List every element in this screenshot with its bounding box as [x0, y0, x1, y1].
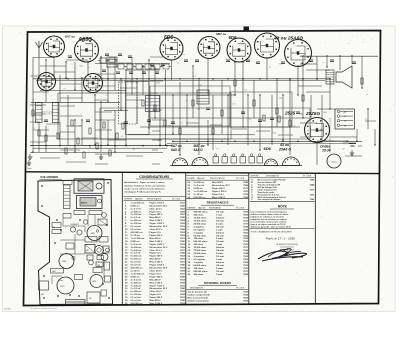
- svg-text:Specifications : Papier, ou tu: Specifications : Papier, ou tubul. a mas…: [124, 181, 165, 184]
- svg-text:7515: 7515: [243, 218, 249, 220]
- svg-text:2 mgohms: 2 mgohms: [194, 256, 206, 258]
- svg-text:500 000 ohms: 500 000 ohms: [194, 212, 209, 214]
- svg-text:7548: 7548: [243, 228, 249, 231]
- svg-text:2 x 25 mf: 2 x 25 mf: [131, 235, 140, 237]
- svg-text:Mica 1 000 V.: Mica 1 000 V.: [150, 303, 164, 305]
- svg-text:2 mgohms: 2 mgohms: [194, 226, 206, 228]
- svg-text:N° CODE: N° CODE: [303, 175, 312, 177]
- svg-text:B 1083: B 1083: [5, 309, 11, 311]
- svg-text:300 ohms: 300 ohms: [194, 244, 205, 246]
- svg-text:Papier 0,5 t.: Papier 0,5 t.: [150, 272, 162, 275]
- svg-text:7593: 7593: [243, 235, 249, 237]
- svg-text:C7: C7: [116, 115, 118, 117]
- svg-text:Papier 0,5 t.: Papier 0,5 t.: [150, 210, 162, 213]
- svg-text:Papier 0,5 t.: Papier 0,5 t.: [150, 231, 162, 234]
- svg-text:500 000 ohms: 500 000 ohms: [194, 271, 209, 273]
- svg-text:C7: C7: [281, 116, 283, 118]
- svg-text:R4: R4: [197, 109, 199, 111]
- svg-text:5 000 cm: 5 000 cm: [131, 241, 140, 243]
- svg-text:4 50 000 cm: 4 50 000 cm: [131, 231, 143, 234]
- svg-text:0,5: 0,5: [133, 149, 135, 151]
- svg-text:7509: 7509: [180, 211, 186, 213]
- svg-text:Papier 1 500 V.: Papier 1 500 V.: [150, 244, 165, 246]
- svg-text:7521: 7521: [243, 268, 249, 270]
- svg-text:Electrochim. 25 V: Electrochim. 25 V: [150, 225, 168, 228]
- svg-text:R4: R4: [330, 83, 332, 85]
- svg-text:7 a 100 cm: 7 a 100 cm: [131, 214, 142, 216]
- svg-text:50: 50: [32, 99, 34, 101]
- svg-text:25A6 G: 25A6 G: [278, 147, 291, 151]
- svg-text:7540: 7540: [180, 216, 186, 219]
- svg-text:7562: 7562: [180, 232, 186, 234]
- svg-text:6D6: 6D6: [164, 35, 173, 41]
- svg-text:150 ohms: 150 ohms: [194, 238, 205, 240]
- svg-text:1 a 10 000 cm: 1 a 10 000 cm: [131, 202, 145, 204]
- svg-text:Papier 0,5 t.: Papier 0,5 t.: [150, 252, 162, 255]
- svg-text:7593: 7593: [243, 212, 249, 214]
- svg-text:C7: C7: [106, 95, 108, 97]
- svg-text:Paris, le 17 - 1 - 1938: Paris, le 17 - 1 - 1938: [266, 237, 295, 241]
- svg-text:6M7 ou: 6M7 ou: [216, 32, 227, 36]
- svg-text:1 watt: 1 watt: [216, 273, 222, 276]
- svg-text:7540: 7540: [180, 299, 186, 302]
- svg-text:N° CODE: N° CODE: [236, 178, 245, 180]
- svg-text:7509: 7509: [243, 238, 249, 240]
- svg-text:7521: 7521: [243, 191, 249, 193]
- svg-text:43 ou: 43 ou: [279, 143, 290, 147]
- svg-text:7562: 7562: [180, 244, 186, 246]
- svg-text:7577: 7577: [243, 247, 249, 249]
- svg-text:0,1: 0,1: [246, 138, 248, 140]
- svg-text:7509: 7509: [180, 294, 186, 296]
- svg-text:2 watts: 2 watts: [216, 252, 224, 255]
- svg-text:REPERE: REPERE: [188, 207, 197, 209]
- svg-text:3 a 200 cm: 3 a 200 cm: [131, 282, 142, 284]
- svg-text:20: 20: [307, 131, 309, 133]
- svg-text:4 50 000 cm: 4 50 000 cm: [131, 302, 143, 305]
- svg-text:4 50 000 cm: 4 50 000 cm: [131, 267, 143, 270]
- svg-text:7521: 7521: [180, 214, 186, 216]
- svg-text:Chim. 25 V. t.: Chim. 25 V. t.: [150, 207, 164, 210]
- svg-text:50 000 ohms: 50 000 ohms: [194, 235, 208, 237]
- svg-text:LE SERVICE TECHNIQUE: LE SERVICE TECHNIQUE: [276, 244, 298, 246]
- svg-text:2 x 8 mf el.: 2 x 8 mf el.: [131, 208, 142, 210]
- svg-text:2 watts: 2 watts: [216, 222, 224, 225]
- svg-text:N° CODE: N° CODE: [172, 198, 181, 200]
- svg-text:Electrochim. 25 V: Electrochim. 25 V: [150, 204, 168, 207]
- svg-text:5000: 5000: [323, 112, 327, 114]
- svg-text:7577: 7577: [243, 188, 249, 190]
- svg-text:5000: 5000: [156, 82, 160, 84]
- svg-text:0,5 mgohm: 0,5 mgohm: [194, 259, 205, 261]
- svg-text:6A7 ou: 6A7 ou: [65, 35, 75, 39]
- svg-text:1 watt: 1 watt: [216, 243, 222, 246]
- svg-text:CONDENSATEURS: CONDENSATEURS: [139, 175, 170, 179]
- svg-text:6A8 G: 6A8 G: [194, 148, 204, 152]
- svg-text:7521: 7521: [243, 292, 249, 294]
- svg-text:0,1: 0,1: [365, 119, 367, 121]
- svg-text:6D6: 6D6: [229, 35, 237, 40]
- svg-text:25 000 ohms: 25 000 ohms: [194, 223, 208, 225]
- svg-text:Bloc d accord 15-36: Bloc d accord 15-36: [188, 298, 209, 300]
- svg-text:50: 50: [343, 148, 345, 150]
- svg-text:6 a 250 cm: 6 a 250 cm: [131, 256, 142, 258]
- svg-text:20: 20: [186, 100, 188, 102]
- svg-text:1/2 watt: 1/2 watt: [216, 255, 224, 258]
- svg-text:N° CODE: N° CODE: [236, 287, 245, 289]
- svg-text:confor. ou aux valeurs en cote: confor. ou aux valeurs en cote, hytensio…: [124, 187, 165, 190]
- svg-text:Mica 1 000 V.: Mica 1 000 V.: [150, 241, 164, 243]
- svg-text:9 a 150 cm: 9 a 150 cm: [131, 223, 142, 225]
- svg-text:7521: 7521: [180, 202, 186, 204]
- svg-text:C7: C7: [88, 67, 90, 69]
- svg-text:7562: 7562: [180, 279, 186, 281]
- svg-text:10 000 ohms: 10 000 ohms: [194, 218, 208, 220]
- svg-text:0,1: 0,1: [177, 63, 179, 65]
- svg-text:Papier 500 V.: Papier 500 V.: [150, 256, 164, 258]
- svg-text:20: 20: [146, 109, 148, 111]
- svg-text:1/4 watt: 1/4 watt: [216, 234, 224, 237]
- svg-text:6 a 250 cm: 6 a 250 cm: [131, 291, 142, 293]
- svg-text:7 a 100 cm: 7 a 100 cm: [131, 250, 142, 252]
- svg-text:5 000 cm: 5 000 cm: [194, 188, 203, 190]
- svg-text:500 000 ohms: 500 000 ohms: [194, 241, 209, 243]
- svg-text:Papier 500 V.: Papier 500 V.: [212, 188, 226, 190]
- svg-text:50: 50: [366, 94, 368, 96]
- svg-text:Chim. 25 V. t.: Chim. 25 V. t.: [150, 269, 164, 272]
- svg-text:0,1 mf tub.: 0,1 mf tub.: [131, 225, 142, 228]
- svg-text:Mica 500 V.: Mica 500 V.: [150, 217, 162, 219]
- svg-text:0,1: 0,1: [121, 136, 123, 138]
- svg-text:7577: 7577: [243, 223, 249, 225]
- svg-text:R4: R4: [89, 147, 91, 149]
- svg-text:Chim. 25 V. t.: Chim. 25 V. t.: [150, 249, 164, 252]
- svg-text:7509: 7509: [243, 298, 249, 300]
- svg-text:tolerance % obtenue. Si nec. p: tolerance % obtenue. Si nec. par toleran…: [124, 184, 166, 187]
- svg-text:50: 50: [181, 123, 183, 125]
- svg-text:2 x 25 mf: 2 x 25 mf: [131, 270, 140, 272]
- svg-text:1/4 watt: 1/4 watt: [216, 219, 224, 222]
- svg-text:25 000 ohms: 25 000 ohms: [194, 253, 208, 255]
- svg-text:2 watts: 2 watts: [216, 237, 224, 240]
- svg-text:SPECIFICATION: SPECIFICATION: [210, 177, 225, 180]
- svg-text:1/2 watt: 1/2 watt: [216, 270, 224, 273]
- svg-text:Papier 0,5 t.: Papier 0,5 t.: [150, 293, 162, 296]
- svg-text:CH: CH: [358, 145, 362, 148]
- svg-text:0,5 mf tub.: 0,5 mf tub.: [131, 264, 142, 267]
- svg-text:Papier 1 500 V.: Papier 1 500 V.: [150, 285, 165, 287]
- svg-text:0,5: 0,5: [343, 113, 345, 115]
- svg-text:100: 100: [168, 125, 171, 127]
- svg-text:2 x 0,1 mf: 2 x 0,1 mf: [131, 288, 141, 290]
- svg-text:0,5 mgohm: 0,5 mgohm: [194, 229, 205, 231]
- svg-text:Papier 500 V.: Papier 500 V.: [150, 235, 164, 237]
- svg-text:Tous droits de reproduction re: Tous droits de reproduction reserves: [30, 307, 57, 310]
- svg-text:0,5: 0,5: [310, 58, 312, 60]
- svg-text:50: 50: [269, 67, 271, 69]
- svg-text:R4: R4: [199, 85, 201, 87]
- svg-text:d analogues P milli et pourcen: d analogues P milli et pourcent par %.: [124, 191, 161, 194]
- svg-text:bobinee: bobinee: [216, 247, 225, 249]
- svg-text:Mica 500 V.: Mica 500 V.: [212, 182, 224, 184]
- svg-text:0,1: 0,1: [244, 90, 246, 92]
- svg-text:0,1: 0,1: [193, 76, 195, 78]
- svg-text:100: 100: [279, 64, 282, 66]
- svg-text:7577: 7577: [243, 271, 249, 273]
- svg-text:bobinee: bobinee: [216, 218, 225, 220]
- svg-text:Jeu complet de lampes: Jeu complet de lampes: [258, 198, 282, 201]
- svg-text:2 x 8 mf el.: 2 x 8 mf el.: [194, 185, 205, 187]
- svg-text:50: 50: [151, 95, 153, 97]
- svg-text:50: 50: [158, 140, 160, 142]
- svg-text:2 x 0,1 mf: 2 x 0,1 mf: [131, 253, 141, 255]
- svg-text:7540: 7540: [243, 225, 249, 228]
- svg-text:9 a 150 cm: 9 a 150 cm: [131, 259, 142, 261]
- svg-text:1 mgohm: 1 mgohm: [194, 232, 204, 234]
- svg-text:7515: 7515: [243, 194, 249, 196]
- svg-text:COMMUT.: COMMUT.: [70, 224, 80, 226]
- svg-text:REPERE: REPERE: [251, 175, 260, 177]
- svg-text:7540: 7540: [180, 204, 186, 207]
- svg-text:5 000 cm: 5 000 cm: [131, 205, 140, 207]
- svg-text:JEU: JEU: [52, 271, 56, 273]
- svg-text:2 x 8 mf el.: 2 x 8 mf el.: [131, 279, 142, 281]
- svg-text:Tolerance generale : plus ou m: Tolerance generale : plus ou moins 10 %.: [251, 226, 292, 229]
- svg-text:7509: 7509: [243, 215, 249, 217]
- svg-text:2 x 8 mf el.: 2 x 8 mf el.: [131, 244, 142, 246]
- svg-text:Mica 500 V.: Mica 500 V.: [150, 259, 162, 261]
- svg-text:etant a sa valeur nominale de: etant a sa valeur nominale de 110 V.: [251, 223, 287, 226]
- svg-text:7540: 7540: [180, 228, 186, 231]
- svg-text:7540: 7540: [180, 252, 186, 255]
- svg-text:Mica 500 V.: Mica 500 V.: [150, 279, 162, 281]
- svg-text:Papier 0,5 t.: Papier 0,5 t.: [212, 193, 224, 196]
- svg-text:C12: C12: [130, 79, 133, 81]
- svg-text:Les resistances sont communiqu: Les resistances sont communiquees: [251, 210, 288, 213]
- svg-text:Electrochim. 25 V: Electrochim. 25 V: [150, 267, 168, 270]
- svg-text:Jeu de boutons (3): Jeu de boutons (3): [188, 291, 207, 294]
- svg-text:25Z6G: 25Z6G: [305, 111, 320, 116]
- svg-text:5000: 5000: [181, 54, 185, 56]
- svg-text:1/2 watt: 1/2 watt: [216, 225, 224, 228]
- svg-text:0,1: 0,1: [217, 148, 219, 150]
- svg-text:7540: 7540: [180, 275, 186, 278]
- svg-text:2 watts: 2 watts: [216, 267, 224, 270]
- svg-text:7509: 7509: [180, 235, 186, 237]
- svg-text:1 a 10 000 cm: 1 a 10 000 cm: [131, 238, 145, 240]
- svg-text:7548: 7548: [243, 252, 249, 255]
- svg-text:Papier 1 500 V.: Papier 1 500 V.: [150, 202, 165, 204]
- svg-text:0,1: 0,1: [323, 62, 325, 64]
- svg-text:9 a 150 cm: 9 a 150 cm: [131, 294, 142, 296]
- svg-text:Mica 500 V.: Mica 500 V.: [150, 238, 162, 240]
- svg-text:C.V.: C.V.: [52, 227, 56, 229]
- svg-text:7509: 7509: [180, 223, 186, 225]
- svg-text:SPECIFICATION: SPECIFICATION: [147, 197, 162, 200]
- svg-text:7521: 7521: [243, 220, 249, 222]
- svg-text:1/2 watt: 1/2 watt: [216, 211, 224, 214]
- svg-text:BOBINE: BOBINE: [188, 178, 196, 180]
- svg-text:7509: 7509: [180, 282, 186, 284]
- svg-text:7562: 7562: [180, 268, 186, 270]
- svg-text:25: 25: [320, 129, 322, 131]
- svg-text:75 000 ohms: 75 000 ohms: [194, 220, 208, 222]
- svg-text:1/4 watt: 1/4 watt: [216, 264, 224, 267]
- svg-text:DESIGNATION: DESIGNATION: [190, 286, 204, 289]
- svg-text:7 a 100 cm: 7 a 100 cm: [131, 285, 142, 287]
- svg-text:6 a 250 cm: 6 a 250 cm: [131, 220, 142, 222]
- svg-text:7521: 7521: [180, 262, 186, 264]
- svg-text:1 watt: 1 watt: [216, 258, 222, 261]
- svg-text:7515: 7515: [243, 265, 249, 267]
- svg-text:7509: 7509: [180, 259, 186, 261]
- svg-text:7593: 7593: [243, 259, 249, 261]
- svg-text:Papier 1 500 V.: Papier 1 500 V.: [150, 223, 165, 225]
- svg-text:VALEUR: VALEUR: [197, 177, 205, 180]
- svg-text:7548: 7548: [243, 181, 249, 184]
- svg-text:300 ohms: 300 ohms: [194, 274, 205, 276]
- svg-text:0,1 mf tub.: 0,1 mf tub.: [131, 261, 142, 264]
- svg-text:7562: 7562: [180, 208, 186, 210]
- svg-text:1 watt: 1 watt: [216, 214, 222, 217]
- svg-text:7562: 7562: [180, 256, 186, 258]
- svg-text:C12: C12: [151, 81, 154, 83]
- svg-text:7521: 7521: [180, 297, 186, 299]
- svg-text:7593: 7593: [243, 300, 249, 302]
- svg-text:0,1: 0,1: [64, 88, 66, 90]
- svg-text:7540: 7540: [243, 184, 249, 187]
- svg-text:Chim. 25 V. t.: Chim. 25 V. t.: [150, 290, 164, 293]
- svg-text:3 a 200 cm: 3 a 200 cm: [131, 211, 142, 213]
- svg-text:7509: 7509: [243, 262, 249, 264]
- svg-text:6A8 G: 6A8 G: [171, 148, 181, 152]
- svg-text:7540: 7540: [243, 249, 249, 252]
- svg-text:Papier 1 500 V.: Papier 1 500 V.: [150, 265, 165, 267]
- svg-text:50 000 ohms: 50 000 ohms: [194, 265, 208, 267]
- svg-text:1/4 watt: 1/4 watt: [216, 249, 224, 252]
- svg-text:VALEUR: VALEUR: [198, 206, 206, 209]
- svg-text:d un controleur universel, le: d un controleur universel, le secteur: [251, 221, 287, 224]
- svg-text:100: 100: [103, 124, 106, 126]
- svg-text:6D6: 6D6: [264, 146, 272, 151]
- svg-text:6A8G: 6A8G: [79, 37, 92, 43]
- svg-text:300 ohms: 300 ohms: [194, 215, 205, 217]
- svg-text:1 a 10 000 cm: 1 a 10 000 cm: [194, 191, 208, 193]
- svg-text:7509: 7509: [180, 247, 186, 249]
- svg-text:MATERIEL DIVERS: MATERIEL DIVERS: [204, 281, 231, 285]
- svg-text:5000: 5000: [78, 125, 82, 127]
- svg-text:150 ohms: 150 ohms: [194, 268, 205, 270]
- svg-text:7562: 7562: [180, 220, 186, 222]
- svg-text:Cadran complet 15-36: Cadran complet 15-36: [188, 294, 211, 297]
- svg-text:7540: 7540: [180, 240, 186, 243]
- svg-text:15-36: 15-36: [322, 149, 331, 153]
- svg-text:N° CODE: N° CODE: [236, 207, 245, 209]
- svg-text:Galette commutateur: Galette commutateur: [188, 299, 210, 302]
- svg-text:7521: 7521: [180, 238, 186, 240]
- svg-text:43 ou 25A6G: 43 ou 25A6G: [273, 36, 303, 42]
- svg-text:0,5 mf tub.: 0,5 mf tub.: [131, 228, 142, 231]
- svg-text:(Documentation): (Documentation): [280, 246, 294, 249]
- svg-text:Papier 500 V.: Papier 500 V.: [150, 214, 164, 216]
- svg-text:7509: 7509: [180, 270, 186, 272]
- svg-text:7521: 7521: [180, 273, 186, 275]
- svg-text:7521: 7521: [180, 226, 186, 228]
- svg-text:VUE ARRIERE: VUE ARRIERE: [40, 175, 58, 179]
- svg-text:7562: 7562: [180, 303, 186, 305]
- svg-text:bobinee: bobinee: [216, 262, 225, 264]
- svg-text:7515: 7515: [243, 295, 249, 297]
- svg-text:2 x 0,1 mf: 2 x 0,1 mf: [131, 217, 141, 219]
- svg-text:Papier 1 500 V.: Papier 1 500 V.: [212, 191, 227, 193]
- svg-text:75 000 ohms: 75 000 ohms: [194, 250, 208, 252]
- svg-text:5000: 5000: [79, 66, 83, 68]
- svg-text:DESIGNATION: DESIGNATION: [266, 174, 280, 177]
- svg-text:0,1 mf tub.: 0,1 mf tub.: [131, 296, 142, 299]
- svg-text:RESISTANCE: RESISTANCE: [209, 206, 222, 209]
- svg-text:C7: C7: [180, 148, 182, 150]
- svg-text:7562: 7562: [243, 256, 249, 258]
- svg-text:1 watt: 1 watt: [216, 228, 222, 231]
- svg-text:2 x 25 mf: 2 x 25 mf: [194, 194, 203, 196]
- svg-text:NOTE: NOTE: [278, 205, 287, 209]
- svg-text:Electrochim. 25 V: Electrochim. 25 V: [212, 184, 230, 187]
- svg-text:chiffre en toutes lettres selo: chiffre en toutes lettres selon la valeu…: [251, 213, 289, 216]
- svg-text:Electrochim. 25 V: Electrochim. 25 V: [150, 246, 168, 249]
- svg-text:5 000 cm: 5 000 cm: [131, 276, 140, 278]
- svg-text:7540: 7540: [180, 264, 186, 267]
- svg-text:50: 50: [211, 55, 213, 57]
- svg-text:7515: 7515: [243, 241, 249, 243]
- svg-text:Mica 1 000 V.: Mica 1 000 V.: [150, 262, 164, 264]
- svg-text:bobinee: bobinee: [216, 232, 225, 234]
- svg-text:7540: 7540: [243, 273, 249, 276]
- svg-text:Mica 500 V.: Mica 500 V.: [150, 300, 162, 302]
- svg-text:50: 50: [293, 126, 295, 128]
- svg-text:7540: 7540: [180, 287, 186, 290]
- svg-text:7521: 7521: [243, 244, 249, 246]
- svg-text:Mica 1 000 V.: Mica 1 000 V.: [150, 282, 164, 284]
- svg-text:VALEUR: VALEUR: [135, 197, 143, 200]
- svg-text:7521: 7521: [180, 250, 186, 252]
- svg-text:Mica 1 000 V.: Mica 1 000 V.: [150, 220, 164, 222]
- svg-text:50: 50: [100, 119, 102, 121]
- svg-text:Chim. 25 V. t.: Chim. 25 V. t.: [150, 228, 164, 231]
- svg-text:REPERE: REPERE: [124, 198, 133, 200]
- svg-text:1 mgohm: 1 mgohm: [194, 262, 204, 264]
- svg-text:POUR COMMANDER LES PIECES DETA: POUR COMMANDER LES PIECES DETACHEES: [251, 230, 293, 233]
- svg-text:10 000 ohms: 10 000 ohms: [194, 247, 208, 249]
- svg-text:0,5: 0,5: [233, 103, 235, 105]
- svg-text:C7: C7: [50, 113, 52, 115]
- svg-text:0,1: 0,1: [33, 128, 35, 130]
- svg-text:50: 50: [38, 142, 40, 144]
- svg-text:7562: 7562: [180, 291, 186, 293]
- svg-text:Papier 500 V.: Papier 500 V.: [150, 276, 164, 278]
- svg-text:0,5 mf tub.: 0,5 mf tub.: [131, 299, 142, 302]
- svg-text:1 a 10 000 cm: 1 a 10 000 cm: [131, 273, 145, 275]
- svg-text:RESISTANCES: RESISTANCES: [207, 200, 229, 204]
- svg-text:0,1: 0,1: [249, 118, 251, 120]
- svg-text:7521: 7521: [180, 285, 186, 287]
- svg-text:3 a 200 cm: 3 a 200 cm: [194, 182, 205, 184]
- svg-text:indiquee au schema. Les tensio: indiquee au schema. Les tensions: [251, 215, 286, 218]
- svg-text:100: 100: [279, 98, 282, 100]
- svg-text:Papier 500 V.: Papier 500 V.: [150, 297, 164, 299]
- svg-text:5000: 5000: [272, 133, 276, 135]
- svg-text:3 a 200 cm: 3 a 200 cm: [131, 247, 142, 249]
- svg-text:6E8 G: 6E8 G: [81, 203, 87, 205]
